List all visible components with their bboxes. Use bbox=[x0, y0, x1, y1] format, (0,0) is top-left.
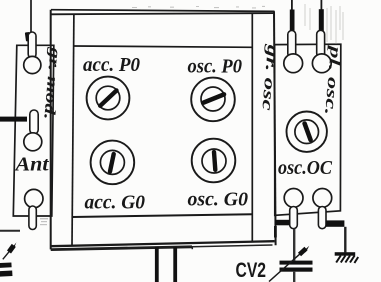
svg-text:acc. G0: acc. G0 bbox=[85, 192, 146, 214]
trimmer osc.OC bbox=[287, 112, 327, 152]
inner cavity bottom edge bbox=[73, 214, 253, 217]
inner cavity top edge bbox=[74, 46, 252, 47]
pin earth-left circle bbox=[25, 189, 43, 207]
thick wire box to cv2 pin bbox=[275, 220, 290, 226]
trimmer osc.G0 bbox=[192, 139, 236, 183]
main shield box outer top edge (double line) bbox=[51, 10, 275, 15]
ground wire down bbox=[344, 227, 346, 253]
pin gr.osc plug bbox=[288, 31, 296, 58]
svg-text:osc. G0: osc. G0 bbox=[188, 189, 249, 211]
pin gr.mod circle bbox=[24, 56, 41, 73]
cv2 arrow shaft bbox=[269, 253, 301, 282]
svg-text:Ant: Ant bbox=[13, 154, 50, 176]
variable capacitor CV2 plate bottom bbox=[280, 268, 313, 272]
thick wire segment gr.osc bbox=[290, 10, 295, 32]
pin gnd plug bbox=[318, 207, 326, 229]
wire to pl.osc pin bbox=[320, 0, 322, 12]
pin earth-left plug bbox=[29, 206, 36, 230]
ground hatching bbox=[336, 256, 358, 264]
pin pl.osc plug bbox=[317, 30, 325, 57]
trimmer acc.P0 bbox=[87, 77, 130, 120]
scan speckles above top edge bbox=[132, 6, 265, 8]
antenna trimmer fragment: arrow shaft bbox=[3, 252, 9, 260]
pin cv2 plug bbox=[290, 207, 298, 229]
pin Ant plug bbox=[30, 110, 38, 134]
bottom terminal wire 1 bbox=[155, 247, 159, 282]
thick wire segment pl.osc bbox=[319, 9, 324, 31]
antenna trimmer fragment: plate 1 bbox=[0, 262, 12, 267]
antenna trimmer fragment: plate 2 bbox=[0, 271, 12, 277]
right terminal panel bbox=[275, 44, 341, 215]
box right edge solder thickening bbox=[274, 226, 277, 238]
wire cv2 down bbox=[293, 229, 295, 261]
trimmer acc.G0 bbox=[91, 141, 135, 185]
svg-text:acc. P0: acc. P0 bbox=[83, 54, 140, 76]
antenna trimmer fragment: arrow head bbox=[9, 245, 14, 252]
pin cv2 circle bbox=[284, 189, 303, 208]
wire to gr.osc pin bbox=[291, 0, 293, 12]
cv2 arrow head bbox=[300, 249, 307, 255]
scan noise streaks right panel bbox=[305, 4, 343, 44]
wire below cv2 bbox=[293, 272, 295, 282]
main box bottom thick edge bbox=[51, 241, 275, 246]
base tray thin line bbox=[192, 245, 273, 247]
wire to gr.mod pin bbox=[30, 0, 32, 33]
main box right edge bbox=[274, 11, 276, 245]
pin gnd circle bbox=[313, 189, 332, 208]
left terminal panel bbox=[13, 45, 54, 216]
pin gr.osc circle bbox=[284, 54, 303, 73]
svg-text:osc. P0: osc. P0 bbox=[188, 56, 243, 78]
wire stub bottom-left bbox=[0, 230, 20, 232]
ground bar bbox=[335, 252, 356, 256]
main box left edge bbox=[50, 10, 52, 250]
solder tick gr.mod pin bbox=[25, 32, 31, 42]
thick wire to Ant pin bbox=[0, 117, 27, 122]
pin Ant circle bbox=[24, 133, 42, 151]
inner cavity left vertical bbox=[72, 14, 74, 246]
variable capacitor CV2 plate top bbox=[280, 261, 313, 265]
thick wire gnd pin to ground bbox=[326, 220, 345, 226]
svg-text:osc.OC: osc.OC bbox=[278, 157, 333, 179]
scan noise dots left panel bottom bbox=[40, 218, 48, 225]
base tray thick black segment bbox=[51, 247, 192, 250]
bottom terminal wire 2 bbox=[173, 247, 177, 282]
pin pl.osc circle bbox=[312, 54, 331, 73]
inner cavity right vertical bbox=[251, 14, 253, 242]
trimmer osc.P0 bbox=[191, 78, 235, 122]
pin gr.mod plug bbox=[28, 32, 36, 58]
svg-text:CV2: CV2 bbox=[236, 259, 267, 282]
